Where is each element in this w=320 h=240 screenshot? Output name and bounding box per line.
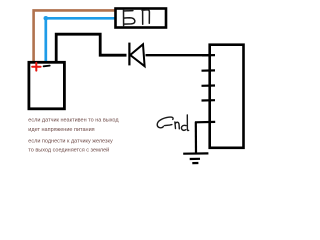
pin tick 1 (wire entry): [202, 54, 215, 56]
ground wire: [195, 122, 197, 154]
wire blue (signal/negative from sensor to PSU): [46, 18, 115, 61]
power supply box БП: [116, 9, 167, 28]
module / connector rectangle: [210, 45, 244, 148]
ground pin tick: [195, 121, 215, 124]
svg-text:если датчик неактивен то на вы: если датчик неактивен то на выход: [28, 118, 119, 124]
blue wire corner blob: [44, 16, 49, 21]
svg-text:если поднести к датчику желез: если поднести к датчику железку: [28, 138, 113, 144]
ground symbol: [183, 153, 208, 163]
wire (diode to module pin): [146, 54, 210, 56]
label Gnd (handwritten): [157, 115, 188, 131]
plus terminal mark: [32, 63, 40, 71]
wire brown (V+ from sensor to PSU): [34, 10, 115, 61]
svg-text:идет напряжение питания: идет напряжение питания: [28, 127, 94, 133]
svg-text:то выход соединяется с землей: то выход соединяется с землей: [28, 147, 109, 154]
pin tick 3: [202, 84, 216, 87]
pin tick 4: [202, 99, 216, 102]
pin tick 2: [202, 69, 216, 71]
label БП (handwritten letters): [123, 10, 149, 26]
diode triangle: [130, 44, 144, 66]
diode cathode bar: [128, 43, 130, 66]
minus terminal mark: [44, 65, 50, 68]
wire black (sensor output to diode): [56, 34, 126, 61]
sensor box: [29, 62, 65, 109]
